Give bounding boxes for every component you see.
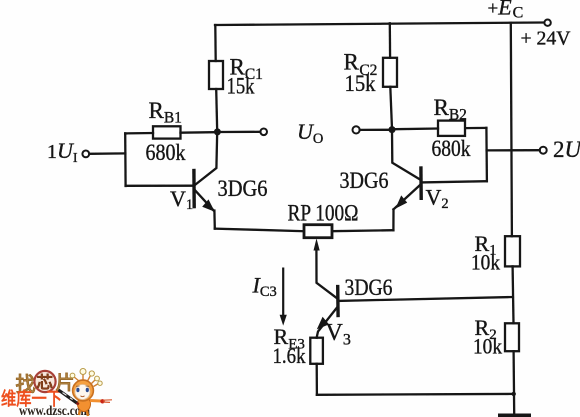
wire top supply rail: [215, 23, 544, 26]
wire V2 base: [421, 181, 487, 182]
wire RP left: [215, 229, 304, 232]
wire RB1 top: [125, 132, 153, 135]
current arrow IC3: [280, 268, 287, 326]
wire 2U output: [487, 149, 540, 151]
wire V3 emitter: [317, 308, 337, 338]
resistor RB2: [438, 121, 465, 136]
svg-text:10k: 10k: [473, 333, 502, 358]
wire V2 emitter: [393, 185, 420, 230]
resistor RC1: [209, 61, 223, 89]
mascot arm: [90, 399, 101, 403]
wire V1 base: [126, 185, 193, 187]
svg-text:3DG6: 3DG6: [218, 176, 268, 201]
svg-text:10k: 10k: [471, 249, 500, 274]
mascot body: [78, 397, 91, 412]
wire bottom: [317, 393, 514, 396]
wire V1 collector: [195, 132, 218, 186]
svg-text:V3: V3: [326, 320, 351, 349]
node junction RC2/RB2/V2: [389, 126, 396, 133]
svg-text:+EC: +EC: [488, 0, 524, 22]
wire V2 collector: [392, 130, 421, 180]
mascot antenna balls: [80, 369, 86, 375]
wire RC2 stem top: [389, 23, 392, 58]
wire right rail upper: [511, 23, 512, 236]
terminal 2U output: [540, 147, 547, 154]
mascot pen: [59, 390, 78, 404]
potentiometer RP wiper arrow: [314, 238, 320, 250]
svg-text:+ 24V: + 24V: [521, 28, 572, 50]
terminal 1U input: [82, 151, 89, 158]
resistor R1: [505, 236, 520, 266]
wire RB2 left: [396, 127, 439, 130]
wire V3 base: [338, 297, 513, 301]
mascot antenna stems: [74, 373, 99, 387]
node junction bottom rail: [512, 392, 516, 396]
wire V3 collector from RP wiper: [316, 246, 337, 299]
wire UO left: [221, 131, 261, 133]
wire UO right: [360, 129, 389, 131]
svg-text:3DG6: 3DG6: [345, 275, 393, 300]
mascot legs: [79, 410, 88, 416]
wire RE3 stem: [316, 364, 318, 395]
resistor RB1: [153, 126, 181, 138]
svg-text:680k: 680k: [432, 136, 471, 161]
potentiometer RP: [304, 225, 332, 238]
wire RP right: [332, 230, 393, 231]
wire RC1 stem bottom: [216, 89, 217, 132]
wire RC2 stem bottom: [390, 87, 392, 127]
svg-text:3DG6: 3DG6: [340, 168, 389, 193]
transistor V3: [317, 285, 338, 330]
node junction RC1/RB1/V1: [214, 128, 221, 135]
mascot brush streak: [103, 400, 112, 403]
svg-text:1.6k: 1.6k: [273, 343, 306, 368]
wire 1U input: [89, 152, 125, 155]
svg-text:IC3: IC3: [252, 273, 277, 301]
mascot arm tip: [100, 399, 104, 403]
wire RB2 right: [465, 127, 486, 130]
wire RC1 stem top: [214, 25, 217, 61]
svg-text:15k: 15k: [345, 71, 376, 96]
watermark logo group: [1, 369, 112, 417]
svg-text:V2: V2: [426, 184, 449, 212]
resistor RC2: [383, 58, 397, 87]
transistor V2: [395, 166, 421, 208]
svg-text:UO: UO: [297, 119, 323, 147]
terminal UO left: [260, 129, 267, 136]
resistor R2: [505, 323, 519, 351]
wire RB1 right: [181, 131, 215, 134]
ground: [498, 414, 531, 417]
wire V1 emitter: [195, 190, 215, 229]
svg-text:RB2: RB2: [434, 95, 467, 124]
mascot hood: [73, 380, 94, 401]
svg-text:680k: 680k: [146, 140, 186, 165]
mascot eyes: [76, 388, 79, 392]
wire RB2 vertical: [485, 128, 488, 181]
mascot mouth: [81, 395, 85, 398]
svg-text:RP 100Ω: RP 100Ω: [288, 201, 359, 226]
watermark circle around xin: [34, 371, 55, 392]
wire input vertical: [124, 133, 127, 186]
terminal +EC: [544, 20, 550, 26]
terminal UO right: [353, 126, 360, 133]
resistor RE3: [310, 338, 323, 364]
wire right rail middle: [511, 266, 514, 323]
svg-text:15k: 15k: [227, 73, 255, 98]
svg-text:V1: V1: [170, 186, 193, 213]
svg-text:1UI: 1UI: [47, 138, 78, 166]
transistor V1: [194, 169, 215, 212]
mascot eyebrows: [76, 385, 89, 387]
svg-text:RB1: RB1: [149, 98, 182, 127]
svg-text:2UI: 2UI: [553, 137, 580, 165]
wire right rail lower: [512, 351, 515, 414]
mascot face: [75, 385, 90, 400]
